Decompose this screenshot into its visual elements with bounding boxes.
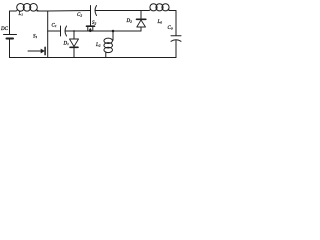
wire top left vertical bbox=[10, 11, 17, 35]
wire top from C2 to D2 node bbox=[96, 10, 150, 12]
svg-text:C1: C1 bbox=[52, 24, 57, 29]
diode D1 bbox=[70, 31, 79, 58]
inductor L1 bbox=[16, 4, 39, 12]
wire level-2 from node A to D2 bbox=[48, 30, 141, 32]
svg-text:S1: S1 bbox=[33, 34, 38, 39]
capacitor C0 bbox=[171, 36, 181, 58]
junction dots bbox=[73, 30, 114, 33]
wire bottom bbox=[10, 57, 177, 59]
node A: junction of L1 output bbox=[47, 11, 49, 31]
capacitor C2 bbox=[91, 6, 97, 16]
diode D2 bbox=[137, 11, 146, 32]
svg-text:DC: DC bbox=[0, 27, 9, 32]
svg-text:D1: D1 bbox=[63, 42, 70, 47]
svg-text:L0: L0 bbox=[157, 20, 163, 25]
wire top right corner down bbox=[169, 11, 176, 36]
svg-text:C0: C0 bbox=[168, 26, 173, 31]
svg-text:S2: S2 bbox=[92, 21, 97, 26]
svg-text:D2: D2 bbox=[126, 19, 133, 24]
inductor L0 bbox=[149, 4, 170, 11]
wire top from L1 to C2 bbox=[37, 10, 90, 13]
svg-text:C2: C2 bbox=[77, 13, 82, 18]
svg-text:L2: L2 bbox=[95, 43, 101, 48]
capacitor C1 bbox=[61, 26, 67, 36]
transistor S1 bbox=[28, 31, 48, 58]
transistor S2 bbox=[87, 16, 95, 32]
battery DC source bbox=[4, 35, 17, 58]
svg-text:L1: L1 bbox=[18, 12, 24, 17]
inductor L2 bbox=[104, 31, 113, 58]
